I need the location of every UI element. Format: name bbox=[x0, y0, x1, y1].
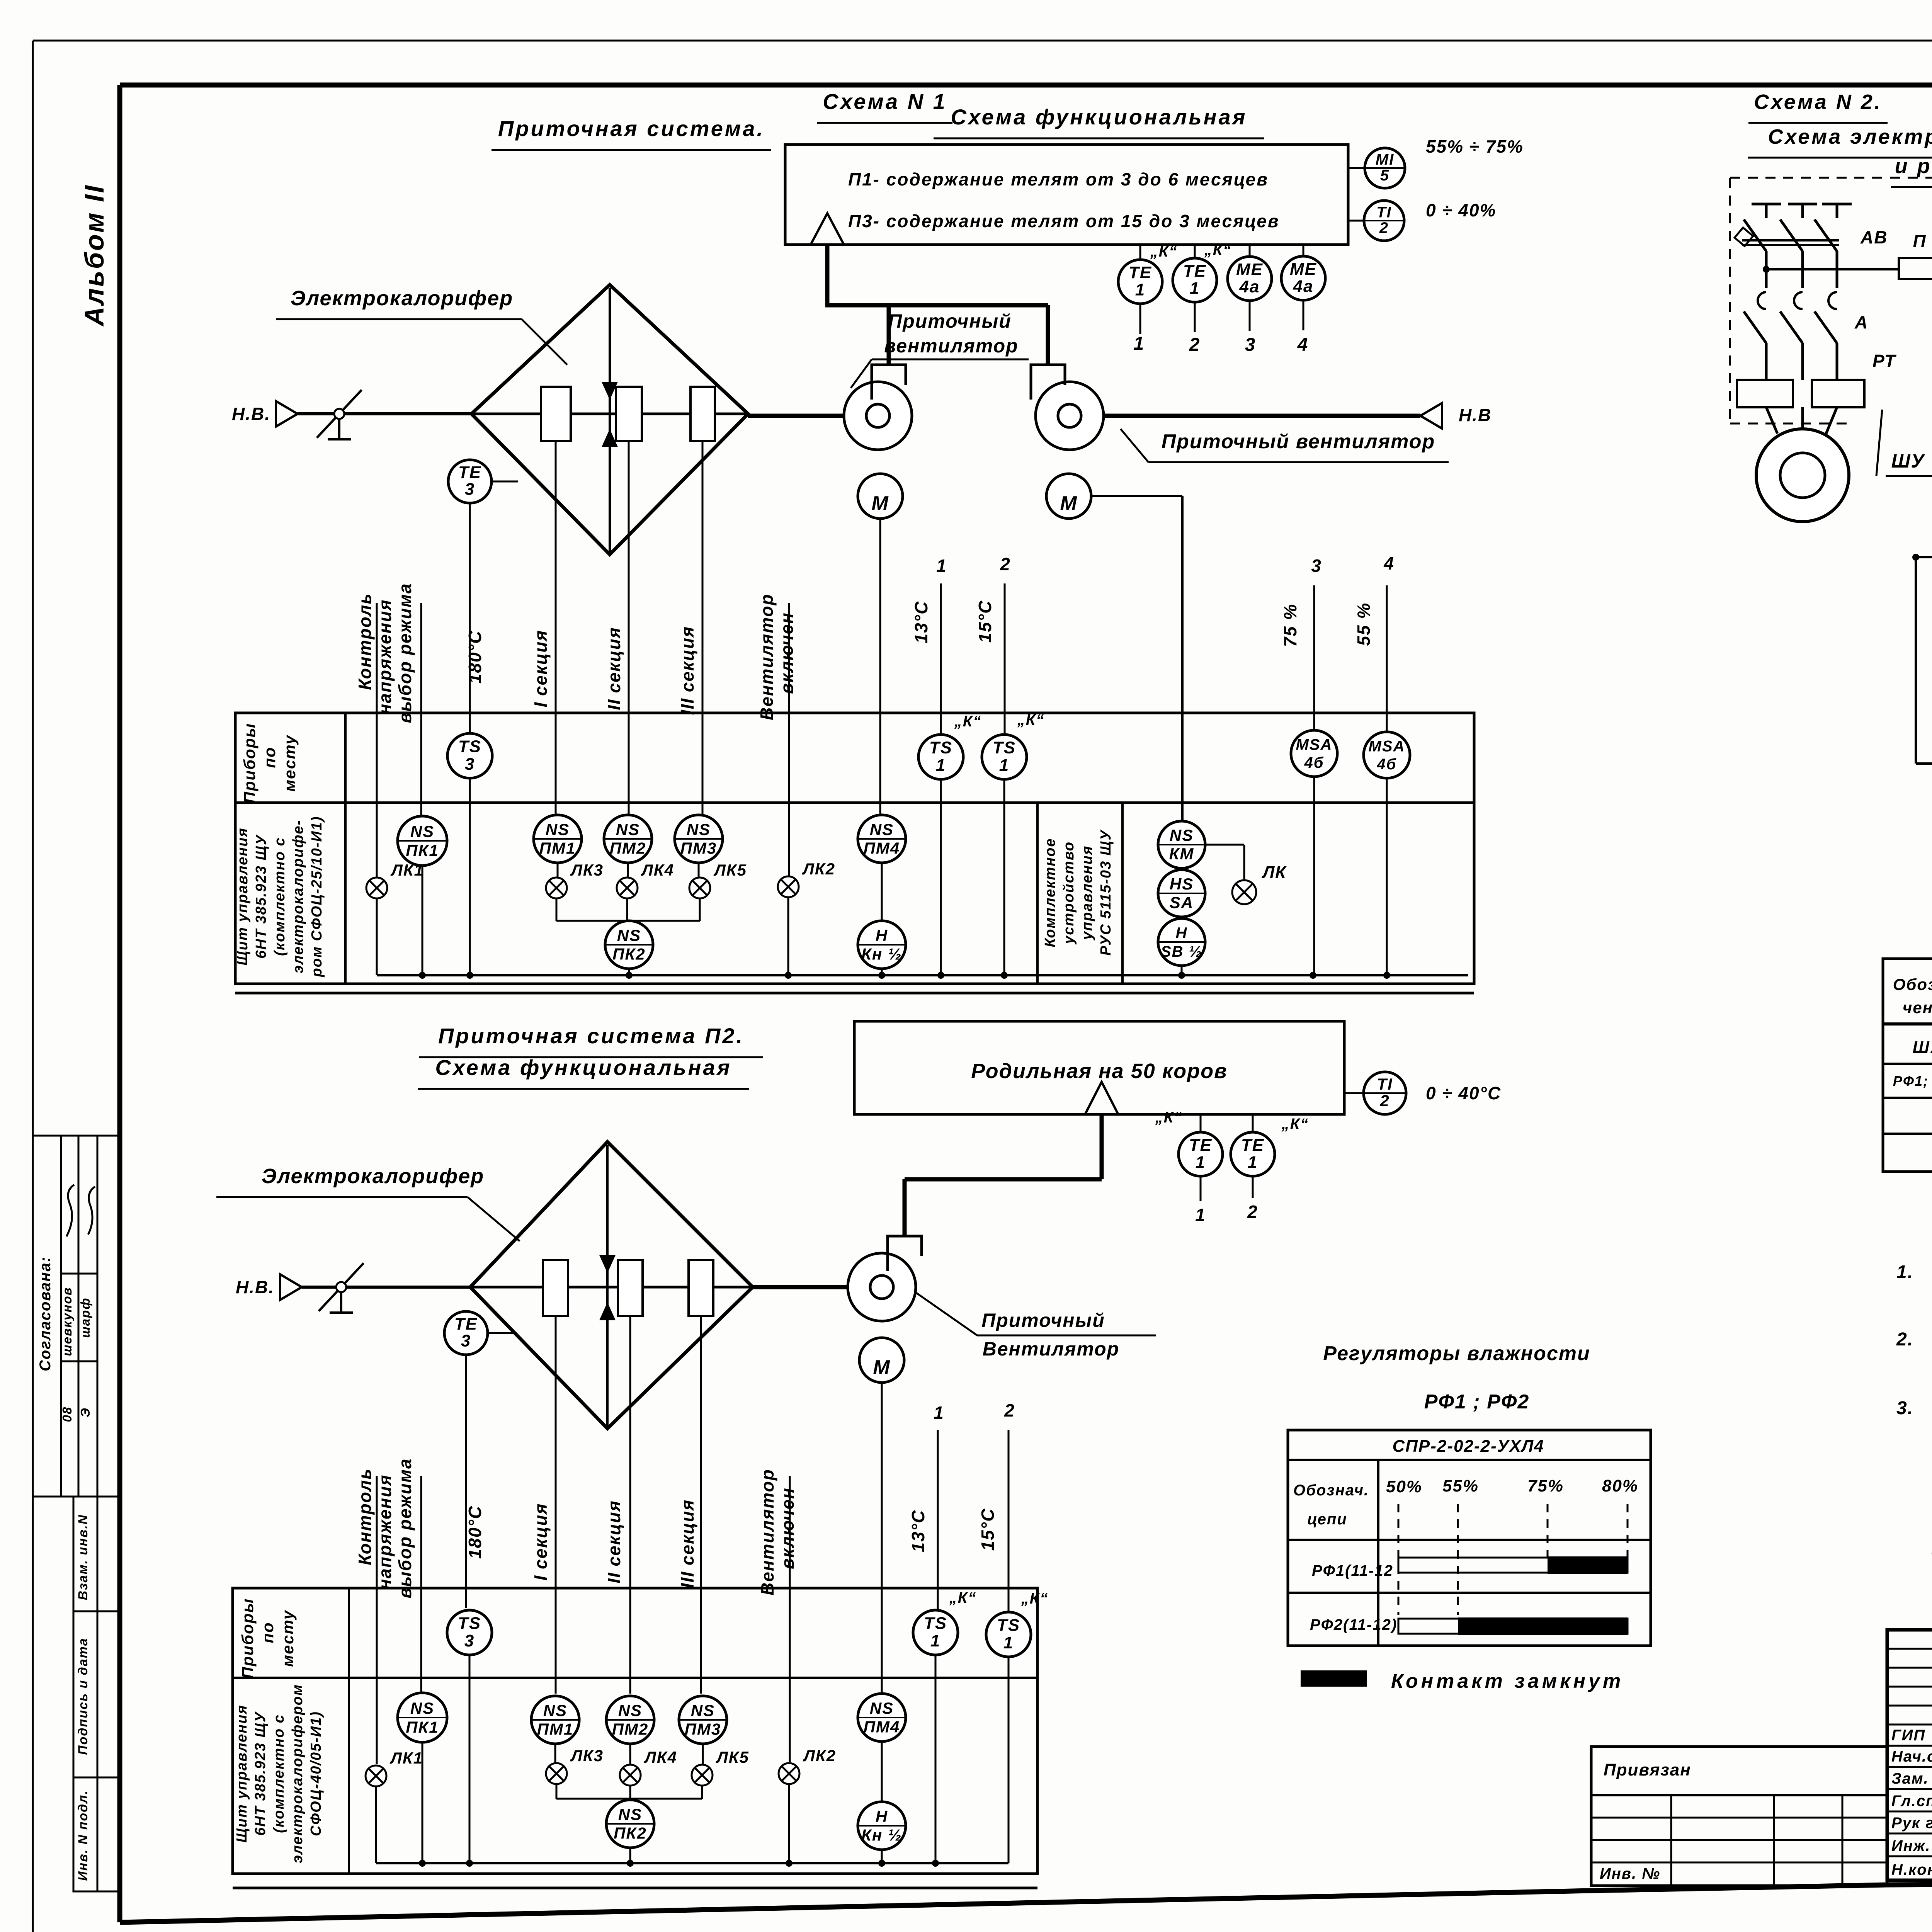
svg-text:TE: TE bbox=[1241, 1136, 1264, 1155]
svg-text:СПР-2-02-2-УХЛ4: СПР-2-02-2-УХЛ4 bbox=[1392, 1437, 1544, 1456]
svg-text:Инж.: Инж. bbox=[1891, 1837, 1931, 1854]
svg-text:NS: NS bbox=[410, 1699, 434, 1717]
svg-text:ЛК4: ЛК4 bbox=[641, 861, 674, 879]
svg-text:Комплектное: Комплектное bbox=[1042, 838, 1058, 947]
svg-text:Гл.спец.: Гл.спец. bbox=[1891, 1793, 1932, 1810]
svg-text:ЛК5: ЛК5 bbox=[716, 1748, 749, 1766]
svg-text:Схема N 1: Схема N 1 bbox=[823, 89, 947, 114]
svg-text:NS: NS bbox=[870, 820, 894, 838]
svg-text:„К“: „К“ bbox=[949, 1589, 977, 1606]
svg-text:0 ÷ 40°C: 0 ÷ 40°C bbox=[1426, 1083, 1501, 1103]
svg-text:Инв. №: Инв. № bbox=[1600, 1865, 1660, 1882]
svg-text:Вентилятор: Вентилятор bbox=[757, 1469, 777, 1595]
svg-text:Н.контр.: Н.контр. bbox=[1891, 1861, 1932, 1878]
svg-text:месту: месту bbox=[281, 734, 299, 792]
svg-text:П3- содержание телят от 15 до: П3- содержание телят от 15 до 3 месяцев bbox=[848, 211, 1280, 231]
svg-text:NS: NS bbox=[617, 926, 641, 944]
svg-text:2: 2 bbox=[1004, 1400, 1015, 1420]
svg-text:75 %: 75 % bbox=[1280, 604, 1300, 647]
svg-text:Щит управления: Щит управления bbox=[234, 1704, 250, 1843]
svg-text:SA: SA bbox=[1170, 893, 1194, 912]
svg-text:1: 1 bbox=[1248, 1153, 1258, 1172]
svg-text:включен: включен bbox=[777, 612, 797, 694]
svg-text:TS: TS bbox=[993, 738, 1016, 757]
svg-text:Взам. инв.N: Взам. инв.N bbox=[76, 1514, 90, 1600]
svg-text:NS: NS bbox=[618, 1701, 642, 1719]
svg-text:ЛК1: ЛК1 bbox=[390, 861, 424, 879]
svg-text:I секция: I секция bbox=[531, 630, 551, 707]
svg-text:III секция: III секция bbox=[677, 1499, 697, 1588]
svg-text:Схема электрическая принципи: Схема электрическая принципиальная управ… bbox=[1768, 125, 1932, 148]
svg-text:4а: 4а bbox=[1293, 277, 1314, 296]
svg-text:NS: NS bbox=[410, 822, 434, 840]
svg-text:выбор режима: выбор режима bbox=[395, 1458, 415, 1598]
svg-text:II секция: II секция bbox=[604, 627, 624, 710]
svg-text:Приточный: Приточный bbox=[888, 310, 1012, 332]
svg-text:ПК1: ПК1 bbox=[406, 1718, 439, 1736]
svg-text:2: 2 bbox=[1379, 1092, 1389, 1110]
svg-text:ЛК1: ЛК1 bbox=[389, 1749, 423, 1767]
svg-text:15°C: 15°C bbox=[978, 1508, 998, 1551]
svg-text:III секция: III секция bbox=[677, 626, 697, 715]
svg-text:по: по bbox=[259, 1622, 277, 1643]
svg-text:цепи: цепи bbox=[1307, 1511, 1347, 1528]
svg-text:TE: TE bbox=[1129, 263, 1152, 282]
svg-text:180°C: 180°C bbox=[465, 1505, 485, 1559]
svg-text:КМ: КМ bbox=[1169, 845, 1194, 863]
svg-text:II секция: II секция bbox=[604, 1500, 624, 1583]
svg-text:Приточная система П2.: Приточная система П2. bbox=[438, 1024, 744, 1048]
svg-text:Н.В.: Н.В. bbox=[232, 404, 270, 424]
svg-text:РФ1(11-12: РФ1(11-12 bbox=[1312, 1562, 1393, 1579]
svg-text:3: 3 bbox=[1311, 556, 1322, 576]
svg-text:„К“: „К“ bbox=[1150, 243, 1178, 260]
svg-text:АВ: АВ bbox=[1860, 227, 1888, 247]
svg-text:MSA: MSA bbox=[1369, 738, 1405, 755]
svg-text:ЛК4: ЛК4 bbox=[644, 1748, 677, 1766]
svg-text:3: 3 bbox=[461, 1332, 471, 1350]
svg-text:NS: NS bbox=[546, 820, 570, 838]
svg-text:Нач.отд.: Нач.отд. bbox=[1891, 1748, 1932, 1765]
svg-text:А: А bbox=[1854, 312, 1868, 332]
svg-text:3: 3 bbox=[464, 1631, 474, 1650]
svg-text:55% ÷ 75%: 55% ÷ 75% bbox=[1426, 136, 1524, 156]
svg-text:напряжения: напряжения bbox=[375, 599, 395, 714]
svg-text:„К“: „К“ bbox=[1155, 1109, 1183, 1126]
svg-text:ШУ: ШУ bbox=[1891, 450, 1926, 472]
svg-text:1: 1 bbox=[1135, 280, 1145, 299]
svg-text:РТ: РТ bbox=[1872, 351, 1897, 371]
svg-text:SB ½: SB ½ bbox=[1161, 943, 1202, 960]
svg-text:1: 1 bbox=[1195, 1205, 1206, 1225]
svg-text:электрокалорифером: электрокалорифером bbox=[289, 1684, 306, 1863]
svg-text:ПМ3: ПМ3 bbox=[685, 1720, 721, 1738]
svg-text:Альбом II: Альбом II bbox=[79, 184, 109, 327]
svg-text:TS: TS bbox=[458, 737, 481, 756]
svg-text:NS: NS bbox=[1170, 826, 1194, 844]
svg-text:2.: 2. bbox=[1896, 1329, 1913, 1350]
svg-text:M: M bbox=[1060, 492, 1077, 515]
svg-text:3: 3 bbox=[1245, 335, 1256, 355]
svg-text:3: 3 bbox=[465, 480, 475, 499]
svg-text:NS: NS bbox=[616, 820, 640, 838]
svg-text:Вентилятор: Вентилятор bbox=[983, 1338, 1120, 1360]
svg-text:ГИП: ГИП bbox=[1891, 1727, 1925, 1744]
svg-text:РУС 5115-03 ЩУ: РУС 5115-03 ЩУ bbox=[1098, 829, 1114, 956]
svg-text:месту: месту bbox=[279, 1609, 297, 1667]
svg-text:Инв. N подл.: Инв. N подл. bbox=[76, 1790, 90, 1881]
svg-text:2: 2 bbox=[1189, 335, 1201, 355]
svg-text:Электрокалорифер: Электрокалорифер bbox=[262, 1165, 484, 1188]
svg-text:ME: ME bbox=[1290, 260, 1317, 279]
svg-text:Приточная система.: Приточная система. bbox=[498, 116, 765, 141]
svg-text:13°C: 13°C bbox=[908, 1510, 928, 1553]
svg-text:15°C: 15°C bbox=[975, 600, 995, 643]
svg-text:ME: ME bbox=[1236, 260, 1263, 279]
svg-text:1: 1 bbox=[1196, 1153, 1206, 1172]
svg-text:75%: 75% bbox=[1527, 1476, 1564, 1495]
svg-text:ПМ2: ПМ2 bbox=[610, 839, 646, 857]
svg-text:55 %: 55 % bbox=[1354, 602, 1374, 646]
svg-text:ПМ1: ПМ1 bbox=[539, 839, 576, 857]
svg-text:80%: 80% bbox=[1602, 1476, 1638, 1495]
svg-text:Кн ½: Кн ½ bbox=[861, 945, 902, 963]
svg-text:MI: MI bbox=[1376, 151, 1394, 168]
svg-text:Э: Э bbox=[78, 1407, 92, 1417]
svg-text:1.: 1. bbox=[1896, 1262, 1913, 1282]
svg-text:ЛК3: ЛК3 bbox=[570, 861, 604, 879]
svg-text:Регуляторы влажности: Регуляторы влажности bbox=[1323, 1342, 1590, 1365]
svg-text:ПК1: ПК1 bbox=[406, 842, 439, 860]
svg-text:ПК2: ПК2 bbox=[612, 945, 645, 963]
svg-text:Схема функциональная: Схема функциональная bbox=[435, 1055, 731, 1080]
svg-text:Контроль: Контроль bbox=[355, 593, 375, 690]
svg-text:РФ2(11-12): РФ2(11-12) bbox=[1310, 1616, 1397, 1633]
svg-text:Схема N 2.: Схема N 2. bbox=[1754, 90, 1882, 114]
svg-text:ЛК: ЛК bbox=[1262, 863, 1287, 882]
svg-text:шарф: шарф bbox=[78, 1297, 92, 1338]
svg-text:„К“: „К“ bbox=[1017, 711, 1045, 728]
svg-text:Обозна-: Обозна- bbox=[1893, 975, 1932, 993]
svg-text:П1- содержание телят от 3 до: П1- содержание телят от 3 до 6 месяцев bbox=[848, 169, 1269, 189]
svg-text:1: 1 bbox=[930, 1631, 940, 1650]
svg-text:TE: TE bbox=[454, 1315, 478, 1333]
svg-text:Контакт замкнут: Контакт замкнут bbox=[1391, 1670, 1624, 1692]
svg-text:6НТ 385.923 ЩУ: 6НТ 385.923 ЩУ bbox=[252, 1711, 269, 1836]
svg-text:ЛК5: ЛК5 bbox=[713, 861, 747, 879]
svg-text:шевкунов: шевкунов bbox=[60, 1287, 74, 1356]
svg-text:M: M bbox=[871, 492, 889, 515]
svg-text:РФ1 ; РФ2: РФ1 ; РФ2 bbox=[1424, 1391, 1530, 1413]
svg-text:ПМ4: ПМ4 bbox=[864, 1718, 900, 1736]
svg-text:Электрокалорифер: Электрокалорифер bbox=[291, 287, 513, 310]
svg-text:TS: TS bbox=[458, 1614, 481, 1633]
svg-text:2: 2 bbox=[1247, 1202, 1258, 1222]
svg-text:выбор режима: выбор режима bbox=[395, 583, 415, 723]
svg-text:MSA: MSA bbox=[1296, 736, 1333, 753]
svg-text:TI: TI bbox=[1376, 204, 1392, 221]
svg-text:Н: Н bbox=[876, 926, 888, 944]
svg-text:HS: HS bbox=[1170, 875, 1194, 893]
svg-text:180°C: 180°C bbox=[465, 630, 485, 684]
svg-text:СФОЦ-40/05-И1): СФОЦ-40/05-И1) bbox=[308, 1711, 324, 1836]
svg-text:Родильная на 50 коров: Родильная на 50 коров bbox=[971, 1060, 1227, 1083]
svg-text:Подпись и дата: Подпись и дата bbox=[76, 1638, 90, 1755]
svg-text:M: M bbox=[873, 1356, 890, 1379]
svg-text:H: H bbox=[1176, 925, 1188, 942]
svg-text:ЛК2: ЛК2 bbox=[802, 860, 835, 878]
svg-text:Приточный: Приточный bbox=[981, 1310, 1105, 1331]
svg-text:4б: 4б bbox=[1376, 756, 1396, 773]
svg-text:РФ1; РФ2: РФ1; РФ2 bbox=[1893, 1073, 1932, 1089]
svg-text:ПМ4: ПМ4 bbox=[864, 839, 900, 857]
svg-text:1: 1 bbox=[1003, 1633, 1014, 1652]
svg-text:вентилятор: вентилятор bbox=[884, 335, 1018, 357]
svg-text:1: 1 bbox=[936, 756, 946, 775]
svg-text:электрокалорифе-: электрокалорифе- bbox=[290, 820, 306, 973]
svg-text:П: П bbox=[1913, 231, 1926, 251]
svg-text:ЛК2: ЛК2 bbox=[803, 1747, 836, 1765]
svg-text:50%: 50% bbox=[1386, 1477, 1422, 1496]
svg-text:и регулирования: и регулирования bbox=[1895, 155, 1932, 178]
svg-text:Обознач.: Обознач. bbox=[1293, 1482, 1369, 1499]
svg-text:1: 1 bbox=[999, 756, 1009, 775]
svg-text:Щит управления: Щит управления bbox=[235, 827, 251, 966]
svg-text:4: 4 bbox=[1383, 553, 1395, 573]
svg-text:TE: TE bbox=[458, 463, 481, 482]
svg-text:1: 1 bbox=[936, 556, 947, 576]
svg-text:4а: 4а bbox=[1239, 277, 1260, 296]
svg-text:Привязан: Привязан bbox=[1604, 1760, 1691, 1779]
svg-text:ПМ3: ПМ3 bbox=[680, 839, 717, 857]
svg-text:ром СФОЦ-25/10-И1): ром СФОЦ-25/10-И1) bbox=[309, 816, 325, 978]
svg-text:Приточный вентилятор: Приточный вентилятор bbox=[1162, 430, 1435, 453]
svg-text:ШУ: ШУ bbox=[1913, 1038, 1932, 1057]
svg-text:NS: NS bbox=[618, 1805, 642, 1823]
svg-text:2: 2 bbox=[1000, 554, 1011, 574]
svg-text:ЛК3: ЛК3 bbox=[570, 1747, 604, 1765]
svg-text:Н: Н bbox=[876, 1807, 888, 1825]
svg-text:„К“: „К“ bbox=[1281, 1116, 1309, 1133]
svg-text:TE: TE bbox=[1189, 1136, 1212, 1155]
svg-text:NS: NS bbox=[543, 1701, 567, 1719]
svg-text:NS: NS bbox=[687, 820, 711, 838]
svg-text:TE: TE bbox=[1183, 262, 1206, 281]
svg-text:„К“: „К“ bbox=[1021, 1590, 1049, 1607]
svg-text:управления: управления bbox=[1079, 845, 1095, 940]
svg-text:TI: TI bbox=[1377, 1075, 1393, 1093]
svg-text:0 ÷ 40%: 0 ÷ 40% bbox=[1426, 200, 1496, 220]
svg-text:4б: 4б bbox=[1304, 754, 1324, 771]
svg-text:4: 4 bbox=[1297, 335, 1309, 355]
svg-text:13°C: 13°C bbox=[911, 601, 931, 644]
svg-text:I секция: I секция bbox=[531, 1503, 551, 1581]
svg-text:5: 5 bbox=[1380, 167, 1389, 184]
svg-text:NS: NS bbox=[691, 1701, 715, 1719]
svg-text:включен: включен bbox=[777, 1487, 798, 1569]
svg-text:08: 08 bbox=[60, 1406, 74, 1422]
svg-text:по: по bbox=[260, 747, 279, 768]
svg-text:Приборы: Приборы bbox=[240, 723, 259, 804]
svg-text:TS: TS bbox=[929, 738, 952, 757]
svg-text:1: 1 bbox=[1190, 279, 1200, 298]
svg-text:6НТ 385.923 ЩУ: 6НТ 385.923 ЩУ bbox=[253, 834, 269, 959]
svg-text:TS: TS bbox=[924, 1614, 947, 1633]
svg-text:Согласована:: Согласована: bbox=[37, 1256, 54, 1371]
svg-text:ПМ1: ПМ1 bbox=[537, 1720, 574, 1738]
svg-text:1: 1 bbox=[934, 1403, 944, 1423]
svg-text:Н.В.: Н.В. bbox=[236, 1277, 274, 1297]
svg-text:Рук гр.: Рук гр. bbox=[1891, 1815, 1932, 1832]
svg-text:Кн ½: Кн ½ bbox=[861, 1826, 902, 1844]
svg-text:TS: TS bbox=[997, 1616, 1020, 1635]
svg-text:ПК2: ПК2 bbox=[614, 1824, 646, 1842]
svg-text:55%: 55% bbox=[1442, 1476, 1479, 1495]
svg-text:3.: 3. bbox=[1896, 1398, 1913, 1418]
svg-text:(комплектно с: (комплектно с bbox=[271, 1714, 287, 1833]
svg-text:3: 3 bbox=[465, 755, 475, 774]
svg-text:1: 1 bbox=[1134, 333, 1145, 354]
svg-text:Схема функциональная: Схема функциональная bbox=[951, 105, 1247, 129]
svg-text:Приборы: Приборы bbox=[238, 1598, 257, 1679]
svg-text:ПМ2: ПМ2 bbox=[612, 1720, 649, 1738]
svg-text:напряжения: напряжения bbox=[375, 1474, 395, 1590]
svg-text:Вентилятор: Вентилятор bbox=[757, 594, 777, 720]
svg-text:„К“: „К“ bbox=[1204, 241, 1232, 259]
svg-text:„К“: „К“ bbox=[954, 713, 982, 730]
svg-text:Зам. н.о.: Зам. н.о. bbox=[1891, 1770, 1932, 1787]
svg-text:NS: NS bbox=[870, 1699, 894, 1717]
svg-text:Н.В: Н.В bbox=[1459, 405, 1492, 425]
svg-text:Контроль: Контроль bbox=[355, 1468, 375, 1565]
svg-text:(комплектно с: (комплектно с bbox=[272, 837, 288, 956]
svg-text:2: 2 bbox=[1379, 219, 1389, 236]
svg-text:устройство: устройство bbox=[1061, 841, 1077, 945]
svg-text:чение: чение bbox=[1903, 998, 1932, 1017]
